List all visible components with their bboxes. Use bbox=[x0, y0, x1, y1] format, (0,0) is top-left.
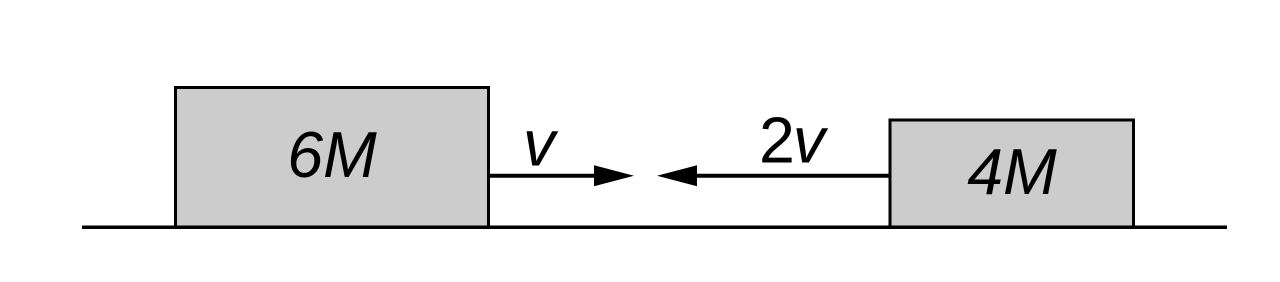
svg-text:v: v bbox=[523, 108, 559, 180]
svg-text:6M: 6M bbox=[287, 119, 377, 191]
svg-text:2v: 2v bbox=[759, 105, 829, 177]
svg-text:4M: 4M bbox=[967, 136, 1057, 208]
